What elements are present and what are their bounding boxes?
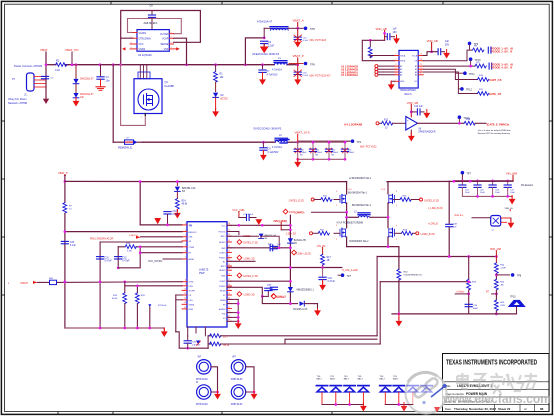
earth ground under C3 [96,87,105,91]
test point TP12 [460,87,464,91]
svg-text:SLOPE: SLOPE [189,290,196,292]
capacitor C15 with DNP X [294,37,301,39]
wire rose loop Q1 source [121,65,146,126]
svg-text:A3: A3 [400,71,402,74]
wire SW2 column [387,182,389,194]
svg-text:HDRV2: HDRV2 [219,270,225,272]
svg-text:GND: GND [400,81,405,83]
svg-text:WHP-DL30: WHP-DL30 [231,379,243,381]
wire U3 VCCB to node [423,52,437,56]
svg-text:R14: R14 [182,201,187,203]
wire to wire2 [138,141,143,143]
svg-text:x_LINE_B 2D: x_LINE_B 2D [428,207,443,210]
resistor R12 [382,121,393,125]
svg-text:A?5A/10A-V?: A?5A/10A-V? [257,21,273,24]
svg-text:J1: J1 [24,93,27,97]
U3 pin stubs [395,56,424,82]
capacitor C22 [322,268,324,277]
svg-text:0.005/PB/R08L/1%: 0.005/PB/R08L/1% [404,275,423,277]
svg-text:AGND2: AGND2 [219,308,226,311]
diode D7 series bottom [290,303,297,305]
svg-text:6R: 6R [300,155,303,157]
U2 pin stubs right [169,34,176,49]
wire feedback loop extra [285,339,377,344]
svg-text:VDD_AB: VDD_AB [427,39,438,43]
svg-text:AGND: AGND [189,258,195,261]
wire under diode array 2 [385,392,399,404]
svg-text:4B: 4B [327,260,330,262]
svg-text:LOW2 3D: LOW2 3D [244,294,255,297]
resistor R40 shunt [397,269,401,280]
svg-text:D5: D5 [294,243,298,245]
svg-text:+22R: +22R [500,268,506,270]
diode D17 faded [407,386,419,393]
ground tap on rail [398,313,401,316]
svg-text:4.7uH/1A: 4.7uH/1A [272,146,282,149]
svg-text:10uF: 10uF [465,192,470,194]
svg-text:600- PCTV223-KIT: 600- PCTV223-KIT [310,74,332,77]
svg-text:SYNC: SYNC [189,282,195,284]
U5 pin numbers right [228,223,230,321]
transistor Q5 [389,228,395,237]
wire PGOOD stub [227,232,239,235]
svg-text:SW1: SW1 [221,248,225,250]
svg-text:B2: B2 [415,69,417,71]
svg-text:VBAT_P: VBAT_P [293,54,304,58]
resistor R17 [321,254,325,265]
svg-text:W?: W? [198,356,202,359]
wire bus1 vertical x64.9 [64,232,66,328]
wire bottom rail left [65,327,164,329]
svg-text:COMP: COMP [189,247,195,249]
svg-text:2.2R: 2.2R [127,251,132,253]
svg-text:25V: 25V [445,43,450,46]
U5 pin numbers left [184,223,186,309]
capacitor C34 near bottom [465,304,472,306]
resistor R10a row3 [477,78,488,82]
TVS diode D1 [75,65,77,79]
svg-text:Power Connect +787GB: Power Connect +787GB [14,64,42,68]
svg-text:C2: C2 [51,78,55,80]
op-amp U6 [406,117,418,131]
wire SW mid rail [347,216,358,218]
svg-text:R16: R16 [403,196,408,198]
wire VCC row [227,224,290,226]
svg-text:TXB0104PWR4: TXB0104PWR4 [400,90,417,92]
wire SW1 column [346,182,348,194]
net label LOW1 [237,255,242,260]
ground under pin bus [235,320,242,329]
frame tick marks top [111,1,443,5]
transistor Q2 [340,194,346,203]
inductor L1 [274,61,287,65]
svg-text:of: of [524,407,527,411]
svg-text:DITH: DITH [189,286,194,288]
svg-text:TP7: TP7 [466,172,471,175]
wire vertical bus x113 [112,65,114,143]
svg-text:R17: R17 [327,257,332,259]
capacitor C12 [325,149,332,151]
ferrite bead FB1 [125,140,134,144]
svg-text:4.7uF/10V: 4.7uF/10V [267,73,278,76]
svg-text:A7 1.2OPA4GA: A7 1.2OPA4GA [341,74,358,77]
svg-text:C22: C22 [328,278,333,280]
svg-text:LOW+_B 2D: LOW+_B 2D [297,252,311,255]
wire SLOPE/CS rows to vertical [176,294,182,296]
svg-text:GATE2_E 2D: GATE2_E 2D [424,200,439,203]
svg-text:VDD_4S8: VDD_4S8 [490,248,502,251]
ground arrow onto VIN wire [154,218,161,224]
svg-text:TP5: TP5 [310,27,315,31]
svg-text:VGATE: VGATE [139,32,147,35]
svg-text:C33: C33 [192,342,197,344]
wire main rail y65 [46,64,56,66]
svg-text:SENSE: SENSE [161,44,169,46]
svg-text:Remove R13 for analog dimming.: Remove R13 for analog dimming. [478,132,511,135]
watermark pen line [431,386,445,397]
wire bridge bottom rail [347,246,399,248]
svg-text:FB0805/4L21: FB0805/4L21 [118,147,133,150]
svg-text:CTRL/DWN: CTRL/DWN [139,38,151,40]
svg-text:B4: B4 [415,75,417,77]
svg-text:2: 2 [336,205,337,207]
svg-text:6R: 6R [332,155,335,157]
wire CSG loop bottom [176,332,208,348]
diode D18 faded [421,386,433,393]
svg-text:GNDS: GNDS [139,49,146,51]
ground right of D7 [314,307,321,316]
watermark logo circle [406,373,447,414]
svg-text:VDDA: VDDA [400,54,406,57]
svg-text:GATE2_F 3D: GATE2_F 3D [243,275,258,278]
svg-text:2.2uF: 2.2uF [268,44,275,47]
net label LOW1_B [271,294,276,299]
svg-text:1: 1 [131,31,132,33]
svg-text:WHP-DL30: WHP-DL30 [196,379,208,381]
svg-text:0.1uF: 0.1uF [303,40,309,42]
resistor R27 gate Q4 [334,232,340,234]
resistor R14 [175,199,179,210]
svg-text:0.1uF: 0.1uF [173,214,179,216]
svg-text:68nF: 68nF [473,308,479,310]
wire SS row to bus2 [100,241,182,243]
wire VBAT drop [45,52,47,65]
ground under D2 chain [212,108,219,117]
svg-text:R28: R28 [403,229,408,231]
op IC U5 main controller [187,222,227,327]
svg-text:L1: L1 [278,57,281,60]
svg-text:DFE2/CO410- 3K9N P3: DFE2/CO410- 3K9N P3 [253,53,280,56]
svg-text:VBB_4S: VBB_4S [505,208,514,210]
svg-text:C17 2.2uF: C17 2.2uF [243,214,254,216]
char fa [490,373,503,394]
svg-text:BAT-T: BAT-T [317,378,323,381]
wire A top rail left [65,180,347,182]
diode D9 small [196,341,200,345]
svg-text:+1.8xxx: +1.8xxx [456,291,465,294]
small red arrow at U2 left pin4 [122,47,125,50]
capacitor C17 [239,217,246,219]
svg-text:KLAZBP: KLAZBP [165,85,175,88]
svg-text:16V: 16V [393,31,398,34]
svg-text:600- PCTV223: 600- PCTV223 [310,39,327,42]
svg-text:CD1005-G KF: CD1005-G KF [293,309,308,311]
svg-text:R15: R15 [323,196,328,198]
svg-text:R20: R20 [141,295,146,297]
char dian [457,373,468,389]
wire WKUP row [37,281,49,283]
svg-text:VBAT: VBAT [40,48,48,52]
svg-text:C38: C38 [453,224,458,226]
svg-text:1.4B/T04: 1.4B/T04 [129,235,139,237]
char you [525,373,538,389]
svg-text:B3: B3 [415,72,417,74]
IC U2 loop2 wiring [128,19,182,34]
svg-text:C34: C34 [473,305,478,307]
ground under C9 [260,152,267,161]
svg-text:PGOOD: PGOOD [218,232,226,234]
svg-text:L2: L2 [279,134,282,137]
svg-text:W?: W? [232,356,236,359]
svg-text:LOW1 3D: LOW1 3D [244,257,255,260]
inductor L2 [275,138,288,142]
svg-text:EN/UVLO: EN/UVLO [189,232,198,234]
svg-text:x2: x2 [492,230,495,232]
test point TP14 [341,273,345,277]
svg-text:PMU_RSGRN #2.2R: PMU_RSGRN #2.2R [90,237,114,240]
zener D3 [175,187,181,192]
svg-text:10a: 10a [106,79,111,82]
resistor R25 chain mid [494,279,498,290]
svg-text:4: 4 [336,225,337,227]
wire under diode array 1 [322,392,363,404]
ferrite L4 to VBAT_A [263,28,265,38]
svg-text:88: 88 [540,407,544,411]
wire sense horizontal y256 [377,256,496,258]
svg-text:GATE1_F 3D: GATE1_F 3D [243,242,258,245]
capacitor C32 on bus3 [115,257,122,259]
wire bus2 vertical x100 [99,242,101,328]
U2 pin stubs left [130,33,137,49]
op IC U2 [137,30,169,52]
ground under TVS chain [174,210,181,219]
svg-text:PGND2: PGND2 [219,286,226,288]
svg-text:LOW+_A: LOW+_A [294,211,305,214]
char shao [503,374,524,391]
svg-text:R?/10uF: R?/10uF [158,305,167,307]
net label LOW+_B [292,250,297,255]
svg-text:R2: R2 [56,60,60,63]
ground under VBAT_P [294,76,301,85]
resistor R8 row1 [473,48,484,52]
frame tick marks left [1,121,5,295]
svg-text:R26: R26 [500,302,505,304]
svg-text:GATE2: GATE2 [277,296,285,299]
svg-text:BZT52: BZT52 [221,98,229,101]
svg-text:SMC258L-57: SMC258L-57 [80,79,94,81]
svg-text:-: - [407,126,408,130]
resistor R21 [210,334,221,338]
svg-text:2: 2 [131,36,132,38]
svg-text:0.1uF/50V: 0.1uF/50V [268,151,279,154]
resistor R30 on bus1 [63,203,67,214]
capacitor C19 branch [262,295,268,297]
ground under J3 [508,219,515,228]
svg-text:U6: U6 [418,129,422,131]
ground under cap bank [511,196,513,198]
svg-text:0.04: 0.04 [55,69,60,72]
ferrite FB2 series [50,280,57,284]
test point TP9 [468,42,472,46]
resistor R28 gate Q5 [394,232,401,234]
svg-text:BZX384-C10: BZX384-C10 [182,188,196,190]
jack TP19 [231,385,245,399]
connector J1 [27,73,35,91]
svg-text:1,5,6: 1,5,6 [381,189,385,191]
svg-text:R27: R27 [320,229,325,231]
svg-text:4: 4 [396,225,397,227]
svg-text:C4?: C4? [267,285,272,287]
svg-text:R?: R? [69,206,73,208]
svg-text:LM5175: LM5175 [199,268,209,272]
svg-text:BST2: BST2 [221,266,226,268]
wire cap x262 upper branch [262,65,264,69]
svg-text:TP15: TP15 [510,297,516,299]
jack TP18 [197,385,211,399]
capacitor C38 on sense drop [446,224,453,226]
svg-text:BUK9K0904 Tab-1: BUK9K0904 Tab-1 [348,193,368,195]
frame tick marks bottom [58,412,332,415]
svg-text:BAS16L-H5: BAS16L-H5 [294,239,307,242]
ground jack pair 1 [214,391,221,400]
svg-text:L3: L3 [354,211,357,213]
capacitor C31 on bus2 [97,257,104,259]
TVS D6 on bus [288,287,294,292]
IC U2 loop1 wiring [121,11,201,43]
wire sense horizontal y281 [380,281,469,283]
capacitor bank C10-C13 top rail [298,141,345,143]
svg-text:A1: A1 [400,65,402,68]
Q1 source pin mark [144,114,146,116]
transistor Q3 [389,194,395,203]
svg-text:U2 bq76200: U2 bq76200 [138,54,152,57]
diode D8 small [148,304,151,307]
svg-text:VIN_B4: VIN_B4 [317,245,326,248]
svg-text:0.1uF: 0.1uF [303,75,309,77]
diode D10 [259,234,264,238]
wire vertical bus x290 [289,215,291,238]
svg-text:BST1: BST1 [221,236,226,238]
svg-text:[GATE_E_PWM 3x: [GATE_E_PWM 3x [487,122,510,126]
capacitor C1 on VBAT column [41,76,48,78]
resistor R9 row2 [475,64,486,68]
svg-text:R13: R13 [466,119,471,121]
ground maroon below J1 column [43,99,49,104]
capacitor C23 left [270,287,277,289]
svg-text:WKUP: WKUP [21,282,29,285]
frame tick marks right [549,121,553,295]
svg-text:1uF: 1uF [277,244,281,246]
svg-text:4xxx & x: 4xxx & x [454,214,464,217]
test point TP8 [496,274,509,276]
zener D2a [213,93,219,98]
resistor R24 chain top [494,263,498,274]
svg-text:HDRV1: HDRV1 [219,242,225,244]
wire FB jog [118,247,140,268]
svg-text:2: 2 [396,205,397,207]
svg-text:PGND1: PGND1 [219,258,226,260]
svg-text:A4 1.5OPA4B: A4 1.5OPA4B [344,122,362,126]
svg-text:LOW2_B 2D: LOW2_B 2D [421,233,435,236]
wire COMP row to bus3 [118,246,125,248]
svg-text:4.7uF PCMB063T-2R2MN: 4.7uF PCMB063T-2R2MN [336,223,363,225]
svg-text:UART_3 B: UART_3 B [489,79,501,82]
svg-text:VDDB: VDDB [400,61,406,63]
wire UVLO long row to bus1 [65,231,182,233]
svg-text:TP8: TP8 [517,275,522,278]
wire DITH row [125,285,182,287]
resistor R18 series [125,245,136,249]
resistor R23 [467,279,471,290]
resistor R2 [56,63,67,67]
node dots on main rail [45,63,48,66]
svg-text:BUK9K0904 Tab-1: BUK9K0904 Tab-1 [352,205,372,207]
capacitor C8 on top loop [151,11,153,14]
wire FB row1 [208,335,210,337]
svg-text:VIN_4S8: VIN_4S8 [506,171,518,175]
U2 pin numbers [131,31,172,49]
wire cap bank top rail [454,180,513,182]
svg-text:OKey For Down: OKey For Down [8,97,27,101]
svg-text:C?: C? [272,291,276,293]
ground under C22 [319,282,326,291]
svg-text:Thursday, November 30, 2017: Thursday, November 30, 2017 [454,407,496,411]
capacitor C3 [100,65,102,76]
svg-text:1,5,6: 1,5,6 [348,189,352,191]
svg-text:OUTGD: OUTGD [160,34,169,36]
svg-text:DEMB: DEMB [220,300,226,302]
svg-text:BAT-T: BAT-T [358,378,364,381]
test point TP10 [469,57,473,61]
svg-text:TP11: TP11 [469,73,475,76]
wire VOUT sense drop x449 [448,181,450,223]
test point TP5 [304,27,308,31]
capacitor C21 left [270,246,277,248]
wire BST cap branch [261,236,279,248]
svg-text:VDD_AB: VDD_AB [407,101,418,105]
svg-text:R40: R40 [404,271,409,273]
capacitor C12a [438,49,441,55]
capacitor C27 [507,181,509,185]
svg-text:B1: B1 [415,66,417,68]
wire SW2 row [227,280,290,282]
svg-text:13k: 13k [80,97,85,99]
ground right of C12a [443,50,450,59]
diode D5 on bus [288,238,294,243]
svg-text:C16: C16 [173,211,178,213]
svg-text:VBAT_A: VBAT_A [293,19,304,23]
resistor R19 [123,293,127,304]
resistor R22 [208,343,210,345]
capacitor C30 on bus1 [61,241,68,243]
watermark chinese characters [457,373,537,394]
wire jack pair 1 hook [211,367,218,392]
U3 GND pin to ground [391,81,395,84]
svg-text:0.47uF: 0.47uF [105,260,113,262]
label NCP text lines [280,140,289,144]
svg-text:+LOW_B: +LOW_B [428,223,438,226]
svg-text:0.1uF: 0.1uF [70,245,76,247]
